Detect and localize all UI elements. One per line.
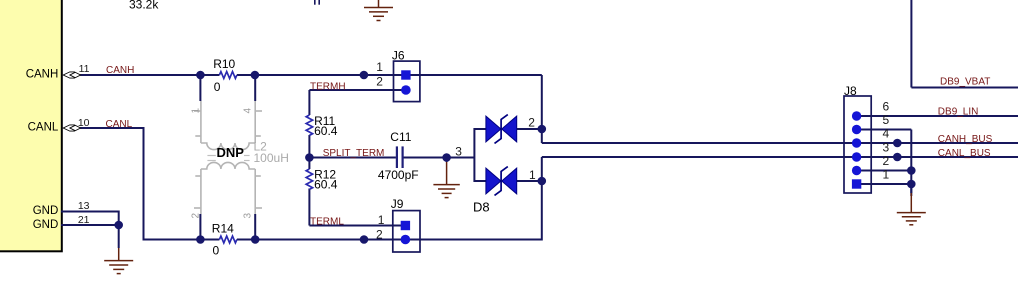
svg-text:0: 0 xyxy=(214,80,221,94)
svg-text:6: 6 xyxy=(883,99,890,113)
svg-text:TERMH: TERMH xyxy=(310,82,346,93)
svg-text:4: 4 xyxy=(243,108,254,114)
svg-text:100uH: 100uH xyxy=(254,151,289,165)
svg-text:CANH: CANH xyxy=(106,65,134,76)
svg-text:1: 1 xyxy=(376,60,383,74)
svg-text:2: 2 xyxy=(376,227,383,241)
svg-text:J9: J9 xyxy=(391,197,404,211)
svg-text:D8: D8 xyxy=(473,199,490,214)
svg-text:GND: GND xyxy=(33,205,59,217)
svg-text:11: 11 xyxy=(79,63,90,75)
svg-text:13: 13 xyxy=(78,200,90,212)
svg-text:SPLIT_TERM: SPLIT_TERM xyxy=(323,148,385,159)
svg-text:C11: C11 xyxy=(390,130,411,144)
svg-text:CANL: CANL xyxy=(28,122,59,134)
svg-text:60.4: 60.4 xyxy=(314,178,338,192)
svg-text:GND: GND xyxy=(33,219,59,231)
svg-text:J8: J8 xyxy=(844,84,857,98)
svg-text:R14: R14 xyxy=(212,222,234,236)
svg-text:CANH: CANH xyxy=(26,69,59,81)
svg-text:R10: R10 xyxy=(213,57,235,71)
svg-text:J6: J6 xyxy=(392,49,405,63)
svg-text:3: 3 xyxy=(243,213,254,219)
svg-text:CANL_BUS: CANL_BUS xyxy=(938,148,991,159)
svg-text:DB9_LIN: DB9_LIN xyxy=(938,107,979,118)
svg-text:1: 1 xyxy=(883,167,890,181)
svg-text:1: 1 xyxy=(378,213,385,227)
svg-text:4: 4 xyxy=(883,127,890,141)
svg-text:CANL: CANL xyxy=(106,119,133,130)
svg-text:5: 5 xyxy=(883,113,890,127)
svg-text:2: 2 xyxy=(883,154,890,168)
svg-text:1: 1 xyxy=(529,168,536,182)
svg-text:33.2k: 33.2k xyxy=(129,0,159,12)
svg-text:3: 3 xyxy=(455,145,462,159)
svg-text:DNP: DNP xyxy=(217,145,245,160)
svg-text:0: 0 xyxy=(213,244,220,258)
svg-text:1: 1 xyxy=(191,108,202,114)
svg-text:TERML: TERML xyxy=(310,216,344,227)
svg-text:2: 2 xyxy=(191,213,202,219)
svg-text:DB9_VBAT: DB9_VBAT xyxy=(940,77,990,88)
svg-text:3: 3 xyxy=(883,140,890,154)
svg-text:10: 10 xyxy=(78,117,90,129)
svg-text:21: 21 xyxy=(78,214,90,226)
svg-text:2: 2 xyxy=(528,116,535,130)
svg-text:CANH_BUS: CANH_BUS xyxy=(938,134,993,145)
svg-text:60.4: 60.4 xyxy=(314,124,338,138)
svg-text:2: 2 xyxy=(376,74,383,88)
svg-text:4700pF: 4700pF xyxy=(378,168,419,182)
